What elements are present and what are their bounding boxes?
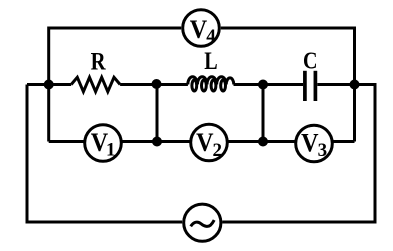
wire node C vertical — [262, 85, 265, 142]
voltmeter V3 circle — [296, 125, 333, 162]
label V4 — [190, 15, 216, 47]
svg-text:V: V — [190, 15, 208, 44]
svg-text:C: C — [303, 48, 318, 74]
junction node A — [44, 80, 54, 90]
inductor L — [188, 77, 234, 85]
junction node B2 (V row) — [152, 137, 162, 147]
voltmeter V2 circle — [191, 124, 228, 161]
svg-text:L: L — [204, 48, 217, 75]
AC source circle — [184, 204, 221, 241]
junction node C2 (V row) — [258, 137, 268, 147]
svg-text:R: R — [91, 49, 107, 76]
wire main row left stub — [27, 83, 71, 86]
wire between inductor and capacitor — [234, 83, 304, 86]
junction node B — [152, 79, 162, 89]
junction node D — [350, 80, 360, 90]
capacitor C plates — [305, 71, 316, 101]
voltmeter V4 circle — [183, 10, 220, 47]
svg-text:4: 4 — [206, 26, 216, 47]
label V3 — [301, 128, 327, 161]
svg-text:3: 3 — [318, 140, 328, 161]
voltmeter V1 circle — [85, 125, 122, 162]
wire V2 to V3 — [229, 140, 295, 143]
wire V1 to V2 — [123, 140, 190, 143]
svg-text:V: V — [301, 128, 319, 157]
wire outer right branch to AC source — [222, 85, 375, 223]
svg-text:2: 2 — [213, 140, 223, 161]
wire between resistor and node B — [120, 83, 188, 86]
label V1 — [91, 128, 116, 160]
wire capacitor to node D — [317, 83, 354, 86]
wire node B vertical — [156, 85, 159, 142]
AC source sine symbol — [191, 220, 215, 226]
wire outer left branch to AC source — [27, 85, 182, 223]
label V2 — [196, 128, 222, 161]
svg-text:1: 1 — [106, 139, 116, 160]
wire top right (voltmeter V4 over and down to node D) — [221, 28, 355, 142]
resistor R — [71, 77, 120, 91]
wire top left (node A up and over to voltmeter V4) — [49, 28, 182, 142]
wire V3 to node D — [333, 140, 354, 143]
svg-text:V: V — [196, 128, 214, 157]
junction node C — [258, 80, 268, 90]
wire V-row: node A down to voltmeter V1 — [49, 140, 84, 143]
